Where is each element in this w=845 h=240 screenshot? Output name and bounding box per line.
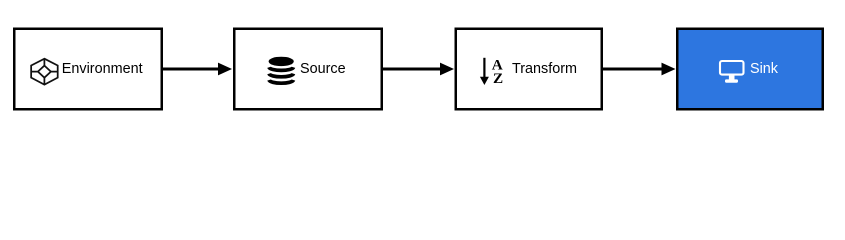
icon monitor (Sink) [720, 61, 744, 83]
svg-text:Sink: Sink [750, 61, 779, 77]
svg-text:Z: Z [493, 70, 503, 87]
arrow Source to Transform [383, 63, 454, 76]
icon cube (Environment) [31, 59, 58, 85]
arrow Transform to Sink [603, 63, 676, 76]
arrow Environment to Source [163, 63, 232, 76]
svg-text:Transform: Transform [512, 61, 577, 77]
box Environment [14, 29, 162, 110]
box Source [234, 29, 382, 110]
svg-text:Source: Source [300, 61, 346, 77]
icon database (Source) [269, 57, 294, 83]
box Transform [456, 29, 602, 110]
box Sink [677, 29, 823, 110]
icon sort-alpha-down (Transform) [480, 56, 503, 87]
svg-text:Environment: Environment [62, 61, 143, 77]
